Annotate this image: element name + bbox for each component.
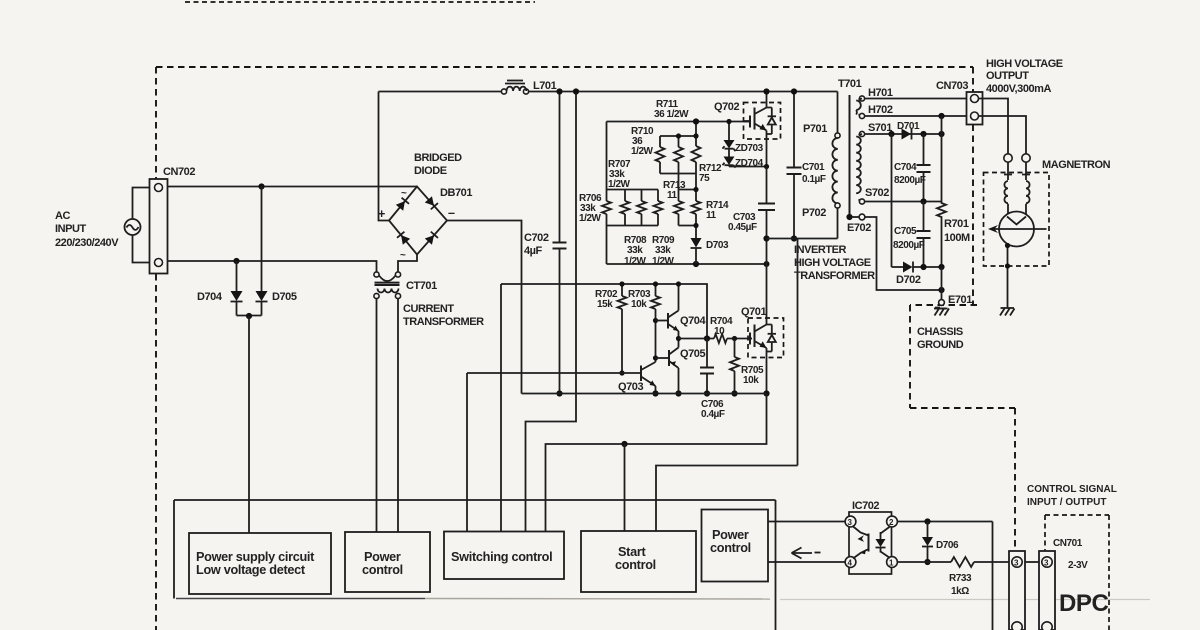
DB701 diode on bottom-left edge bbox=[397, 232, 410, 245]
svg-text:R733: R733 bbox=[949, 573, 972, 584]
diode D706 bbox=[922, 522, 933, 563]
arrow to power control bbox=[792, 548, 821, 559]
capacitor C705 bbox=[917, 202, 931, 268]
AC source symbol bbox=[125, 219, 141, 235]
wire: Q703 base line bbox=[467, 372, 641, 374]
svg-text:D704: D704 bbox=[197, 291, 223, 303]
wire: long riser from P702 node down to start-control line bbox=[797, 239, 799, 466]
wire: top bus right of L701 bbox=[528, 91, 837, 93]
wire: H702 to CN703 pin2 bbox=[865, 115, 971, 117]
junction: driver midpoint bbox=[676, 336, 681, 341]
magnetron tube bbox=[999, 212, 1034, 247]
svg-text:Q704: Q704 bbox=[680, 315, 706, 327]
wire: gate line from network to Q702 bbox=[744, 121, 752, 123]
svg-text:TRANSFORMER: TRANSFORMER bbox=[403, 316, 484, 328]
capacitor C704 bbox=[917, 134, 931, 202]
IC702 pin 4 bbox=[845, 557, 856, 568]
box: Power supply circuit / Low voltage detect bbox=[189, 533, 331, 594]
connector CN703 bbox=[967, 92, 983, 125]
box: Power control (left) bbox=[345, 532, 430, 592]
main dashed border: left edge (above CN702) bbox=[155, 67, 157, 179]
resistor leg 2 of bank (R707) bbox=[621, 190, 630, 226]
R710 bank: bottom rail bbox=[660, 173, 696, 175]
dashed net: vertical at x=1015 down to CN701 bbox=[1014, 408, 1016, 552]
IC702 light arrow bbox=[857, 535, 865, 543]
resistor R712 bbox=[692, 146, 701, 162]
wire: AC source top to CN702 pin1 bbox=[133, 188, 150, 220]
resistor R702 bbox=[618, 284, 627, 373]
svg-text:control: control bbox=[615, 558, 656, 572]
transformer heater winding H701/H702 bbox=[856, 96, 864, 119]
R710 middle leg resistor bbox=[674, 136, 683, 174]
CN701 bar2 pin 3 bbox=[1042, 557, 1052, 568]
transformer secondary winding bbox=[856, 131, 864, 204]
transformer E702 core tap bbox=[846, 214, 852, 220]
connector CN701 bar 2 bbox=[1039, 551, 1055, 630]
svg-text:CONTROL SIGNAL: CONTROL SIGNAL bbox=[1027, 484, 1117, 495]
transistor Q702 (IGBT) dashed outline bbox=[744, 103, 781, 140]
resistor R714 bbox=[692, 201, 701, 214]
transistor Q703 bbox=[641, 362, 656, 394]
svg-text:~: ~ bbox=[401, 188, 407, 199]
control board bottom edge (faded scan) bbox=[176, 598, 425, 600]
CN701 bar1 bottom pin bbox=[1012, 622, 1022, 630]
wire: negative bus bbox=[522, 393, 767, 395]
svg-text:CT701: CT701 bbox=[406, 280, 437, 292]
svg-text:DPC: DPC bbox=[1059, 590, 1108, 617]
box: Switching control bbox=[444, 532, 564, 580]
lower resistor bank bottom rail bbox=[607, 225, 659, 227]
main dashed border: left edge (below CN702) bbox=[155, 274, 157, 630]
svg-text:S702: S702 bbox=[865, 187, 889, 199]
svg-text:CHASSIS: CHASSIS bbox=[917, 326, 963, 338]
wire: D702 anode branch (S701 to D702) bbox=[891, 134, 893, 267]
svg-text:1/2W: 1/2W bbox=[631, 146, 654, 157]
box: Power control (right) bbox=[702, 510, 769, 582]
resistor R701 bbox=[937, 116, 946, 267]
R713/R714 bank bottom rail bbox=[679, 225, 697, 227]
junction: C702 bottom on negative bus bbox=[556, 390, 562, 396]
CN702 pin hole 2 bbox=[155, 259, 163, 267]
magnetron filament leads bbox=[1008, 163, 1026, 181]
svg-text:L701: L701 bbox=[533, 80, 557, 92]
junction: D706 bottom bbox=[924, 559, 930, 565]
junction: midpoint to P702 wire bbox=[763, 235, 769, 241]
svg-text:D701: D701 bbox=[897, 121, 920, 132]
svg-text:1/2W: 1/2W bbox=[608, 179, 631, 190]
capacitor C701 bbox=[787, 92, 802, 239]
svg-text:15k: 15k bbox=[597, 299, 613, 310]
transistor Q705 bbox=[656, 339, 679, 394]
wire core tap to E702 bbox=[852, 216, 859, 218]
junction: R701 top on S701 line bbox=[938, 131, 944, 137]
wire: CN703 pin2 to magnetron filament 2 bbox=[979, 116, 1027, 154]
wire: power control to IC702 pin3 bbox=[768, 521, 845, 523]
svg-text:220/230/240V: 220/230/240V bbox=[55, 237, 119, 249]
wire: base chain x=655.5 down to Q703 collector bbox=[655, 321, 657, 363]
Q702 IGBT symbol bbox=[744, 92, 777, 167]
svg-text:INVERTER: INVERTER bbox=[794, 244, 847, 256]
diode D705 bbox=[256, 187, 268, 316]
svg-text:MAGNETRON: MAGNETRON bbox=[1042, 159, 1111, 171]
junction: C704 top bbox=[920, 131, 926, 137]
svg-text:~: ~ bbox=[400, 250, 406, 261]
IC702 phototransistor bbox=[853, 526, 869, 559]
resistor R705 bbox=[730, 339, 739, 394]
wire: S702 line bbox=[865, 201, 942, 203]
svg-text:H701: H701 bbox=[868, 87, 893, 99]
junction: riser top on bus bbox=[573, 88, 579, 94]
chassis ground symbol at E701 bbox=[934, 308, 949, 316]
svg-text:ZD703: ZD703 bbox=[735, 143, 764, 154]
svg-text:11: 11 bbox=[706, 210, 717, 221]
svg-text:Power: Power bbox=[712, 528, 749, 542]
wire: midpoint bottom link C703-C701-primary bbox=[767, 238, 838, 240]
junction: HV return tap on H702 wire bbox=[938, 113, 944, 119]
DPC dashed box: top edge bbox=[1045, 514, 1109, 516]
control board outline: top edge bbox=[174, 499, 776, 501]
svg-text:100M: 100M bbox=[944, 232, 970, 244]
junction: R701 bottom bbox=[938, 264, 944, 270]
magnetron filament coil 2 bbox=[1026, 181, 1030, 203]
junction: D702 branch on S701 line bbox=[888, 131, 894, 137]
svg-text:8200µF: 8200µF bbox=[894, 175, 926, 186]
wire: IC702 pin2 right to riser bbox=[898, 521, 993, 523]
terminal E702 bbox=[859, 214, 865, 220]
svg-text:C702: C702 bbox=[524, 232, 549, 244]
DB701 diode on bottom-right edge bbox=[425, 232, 438, 245]
transformer T701 primary winding bbox=[832, 92, 840, 239]
IC702 pin 1 bbox=[887, 557, 898, 568]
wire: line A tap down to start control bbox=[624, 444, 626, 531]
wire: R701 bottom to E701 bbox=[941, 267, 943, 300]
magnetron cathode stem to ground bbox=[1007, 243, 1009, 308]
junction: C701 bottom bbox=[791, 235, 797, 241]
svg-text:33k: 33k bbox=[627, 245, 643, 256]
DPC dashed box: right edge bbox=[1108, 515, 1110, 630]
network bottom edge bbox=[607, 263, 767, 265]
svg-text:BRIDGED: BRIDGED bbox=[414, 152, 462, 164]
svg-text:HIGH VOLTAGE: HIGH VOLTAGE bbox=[794, 257, 871, 269]
magnetron anode chevron bbox=[1007, 217, 1026, 225]
svg-text:CURRENT: CURRENT bbox=[403, 303, 454, 315]
junction: E701 node bbox=[938, 287, 944, 293]
resistor R704 bbox=[714, 334, 727, 343]
terminal E701 bbox=[939, 300, 945, 306]
wire between connector bars bbox=[1025, 561, 1039, 563]
svg-text:H702: H702 bbox=[868, 104, 893, 116]
wire: AC source bottom to CN702 pin2 bbox=[133, 235, 150, 263]
resistor R703 bbox=[651, 284, 660, 321]
svg-text:E701: E701 bbox=[948, 294, 972, 306]
wire: line B from P702 riser to start control bbox=[656, 466, 798, 532]
wire: R733 to CN701 bbox=[974, 561, 1009, 563]
svg-text:11: 11 bbox=[667, 190, 678, 201]
svg-text:DB701: DB701 bbox=[440, 187, 472, 199]
junction R702 top bbox=[619, 281, 624, 286]
R710 left leg resistor bbox=[656, 136, 665, 174]
Q701 IGBT symbol bbox=[750, 318, 777, 358]
svg-text:0.4µF: 0.4µF bbox=[701, 409, 725, 420]
main dashed border: right edge below CN703 bbox=[972, 125, 974, 305]
svg-text:Q702: Q702 bbox=[714, 101, 739, 113]
control board outline: left edge bbox=[173, 500, 175, 599]
main dashed border: right edge bbox=[972, 67, 974, 92]
CN702 pin hole 1 bbox=[155, 184, 163, 192]
DPC dashed box: left edge bbox=[1044, 515, 1046, 550]
svg-text:–: – bbox=[448, 206, 455, 220]
svg-text:C701: C701 bbox=[802, 162, 825, 173]
IC702 pin 3 bbox=[845, 516, 856, 527]
network right chain: top segment with junction bbox=[695, 122, 697, 147]
capacitor C706 bbox=[700, 339, 714, 394]
control board outline: right edge riser bbox=[775, 500, 777, 630]
junction: D704 tap on AC bottom line bbox=[233, 258, 239, 264]
wire: S701 line bbox=[865, 133, 942, 135]
svg-text:INPUT / OUTPUT: INPUT / OUTPUT bbox=[1027, 497, 1106, 508]
svg-text:Low voltage detect: Low voltage detect bbox=[196, 563, 306, 577]
wire: bus right end down to line A bbox=[546, 394, 767, 532]
svg-text:1/2W: 1/2W bbox=[652, 256, 675, 267]
resistor R713 bbox=[674, 190, 683, 226]
svg-text:36 1/2W: 36 1/2W bbox=[654, 109, 689, 120]
wire: D704/D705 junction bar bbox=[237, 315, 262, 317]
wire: AC top line CN702 to bridge top vertex bbox=[168, 186, 418, 188]
zener diode ZD703 bbox=[723, 122, 736, 152]
junction: bus right end bbox=[763, 390, 769, 396]
svg-text:8200µF: 8200µF bbox=[893, 240, 925, 251]
wire: down to power supply circuit box bbox=[248, 316, 250, 533]
svg-text:Power supply circuit: Power supply circuit bbox=[196, 550, 315, 564]
ground symbol (magnetron) bbox=[1000, 308, 1015, 316]
svg-text:75: 75 bbox=[699, 173, 710, 184]
svg-text:DIODE: DIODE bbox=[414, 165, 447, 177]
svg-text:IC702: IC702 bbox=[852, 500, 879, 512]
svg-text:R701: R701 bbox=[944, 218, 969, 230]
IC702 LED bbox=[876, 527, 891, 559]
junction on emitter column bbox=[764, 164, 769, 169]
diode D702 bbox=[892, 262, 942, 273]
wire: riser x=992.5 down bbox=[992, 522, 994, 630]
svg-text:2-3V: 2-3V bbox=[1068, 560, 1088, 571]
svg-text:10k: 10k bbox=[743, 375, 759, 386]
svg-text:33k: 33k bbox=[655, 245, 671, 256]
svg-text:1kΩ: 1kΩ bbox=[951, 586, 969, 597]
svg-text:Switching control: Switching control bbox=[451, 550, 552, 564]
wire: CN703 pin1 to magnetron filament 1 bbox=[979, 99, 1009, 154]
svg-text:D703: D703 bbox=[706, 240, 729, 251]
svg-text:Q701: Q701 bbox=[741, 306, 766, 318]
resistor leg 4 of bank (R709) bbox=[654, 190, 663, 226]
DB701 diode on top-right edge bbox=[425, 196, 438, 209]
wire: H701 to CN703 pin1 bbox=[865, 98, 971, 100]
junction C706 bottom bbox=[704, 390, 710, 396]
magnetron dashed outline bbox=[984, 173, 1050, 267]
svg-text:E702: E702 bbox=[847, 222, 871, 234]
svg-text:4µF: 4µF bbox=[524, 245, 543, 257]
svg-text:Q703: Q703 bbox=[618, 381, 643, 393]
svg-text:10k: 10k bbox=[631, 299, 647, 310]
transistor Q704 bbox=[656, 284, 679, 339]
junction: bottom edge to half-bridge midpoint bbox=[764, 261, 770, 267]
wire: IC702 pin1 to R733 bbox=[898, 561, 952, 563]
lower resistor bank top rail bbox=[607, 189, 659, 191]
svg-text:0.45µF: 0.45µF bbox=[728, 222, 757, 233]
wire: Q701 emitter to negative bus bbox=[766, 358, 768, 394]
svg-text:OUTPUT: OUTPUT bbox=[986, 70, 1029, 82]
wire: switching feed riser x=501 bbox=[500, 284, 502, 532]
junction: Q702 collector on top bus bbox=[763, 88, 769, 94]
svg-text:CN701: CN701 bbox=[1053, 538, 1083, 549]
connector CN702 bbox=[150, 179, 168, 274]
box: Start control bbox=[581, 531, 696, 592]
junction on stem bbox=[1005, 243, 1010, 248]
wire: drive supply line y=284 bbox=[501, 284, 707, 339]
magnetron terminal 1 bbox=[1004, 154, 1012, 162]
CN703 pin 2 bbox=[971, 112, 979, 120]
junction: Q705 base tap bbox=[653, 355, 658, 360]
network left edge with resistor R706 (lowest-left leg) bbox=[606, 122, 608, 202]
magnetron filament coil 1 bbox=[1004, 181, 1008, 203]
svg-text:1/2W: 1/2W bbox=[579, 213, 602, 224]
capacitor C702 bbox=[553, 92, 567, 394]
svg-text:S701: S701 bbox=[868, 122, 892, 134]
connector CN701 bar 1 bbox=[1009, 551, 1025, 630]
svg-text:HIGH VOLTAGE: HIGH VOLTAGE bbox=[986, 58, 1063, 70]
optocoupler IC702 box bbox=[849, 512, 892, 574]
wire: bridge + vertical riser (crosses AC line) bbox=[379, 92, 390, 221]
svg-text:D705: D705 bbox=[272, 291, 297, 303]
svg-text:4000V,300mA: 4000V,300mA bbox=[986, 83, 1051, 95]
magnetron output arrow bbox=[988, 225, 1047, 233]
junction: Q704 collector on supply line bbox=[676, 281, 681, 286]
junction: C702 top on bus bbox=[556, 88, 562, 94]
svg-text:control: control bbox=[710, 541, 751, 555]
wire: CT701 secondary right to power control bbox=[397, 299, 399, 533]
svg-text:Power: Power bbox=[364, 550, 401, 564]
svg-text:TRANSFORMER: TRANSFORMER bbox=[794, 270, 875, 282]
junction: C701 top on bus bbox=[791, 88, 797, 94]
wire: top bus left of L701 bbox=[379, 91, 502, 93]
diode D703 bbox=[691, 238, 702, 264]
junction R705 bottom bbox=[731, 390, 737, 396]
svg-text:+: + bbox=[378, 207, 385, 221]
svg-text:P702: P702 bbox=[802, 207, 826, 219]
resistor R706 zigzag bbox=[602, 201, 611, 214]
junction dot on bar bbox=[246, 313, 252, 319]
resistor network outer box: top edge (R711 in series) bbox=[607, 121, 752, 123]
svg-text:AC: AC bbox=[55, 210, 70, 222]
svg-text:CN703: CN703 bbox=[936, 80, 968, 92]
DB701 diode on top-left edge bbox=[396, 198, 409, 211]
wire: bridge bottom vertex to CT701 bbox=[398, 255, 417, 273]
CN703 pin 1 bbox=[971, 95, 979, 103]
filament connection ticks bbox=[1004, 174, 1030, 176]
wire: ZD chain to emitter column bbox=[729, 166, 767, 168]
svg-text:Q705: Q705 bbox=[680, 348, 705, 360]
junction: start-control tap on line A bbox=[621, 441, 627, 447]
junction: D705 tap on AC top line bbox=[258, 183, 264, 189]
wire: bridge - output to negative bus riser bbox=[447, 221, 522, 394]
svg-text:CN702: CN702 bbox=[163, 166, 195, 178]
transistor Q701 (IGBT) dashed outline bbox=[748, 318, 784, 358]
wire: R710 bank to R713 bank bbox=[678, 174, 680, 190]
svg-text:D706: D706 bbox=[936, 540, 959, 551]
CN701 bar1 pin 3 bbox=[1012, 557, 1022, 568]
dashed net: horizontal at y=408 bbox=[910, 407, 1015, 409]
junction: ZD chain on gate line bbox=[726, 119, 731, 124]
junction: C706/supply tap on gate line bbox=[704, 335, 710, 341]
dashed net: vertical at x=910 bbox=[909, 305, 911, 408]
capacitor C703 bbox=[758, 167, 775, 319]
junction: D703 chain at bottom edge bbox=[693, 261, 699, 267]
junction: Q704 base tap bbox=[653, 318, 658, 323]
wire: second riser from top bus down to switching feed bbox=[526, 92, 577, 532]
svg-text:INPUT: INPUT bbox=[55, 223, 86, 235]
svg-text:P701: P701 bbox=[803, 123, 827, 135]
magnetron terminal 2 bbox=[1022, 154, 1030, 162]
junction R703 top bbox=[653, 281, 658, 286]
bridged diode DB701 diamond bbox=[389, 187, 447, 255]
wire: E702 drop line bbox=[865, 217, 942, 290]
IC702 pin 2 bbox=[887, 516, 898, 527]
outer dashed border fragment (top, cut off) bbox=[185, 1, 535, 3]
current transformer CT701 bbox=[374, 272, 401, 299]
R710 parallel bank: top rail bbox=[660, 135, 696, 137]
junction on R710 top rail bbox=[676, 133, 681, 138]
R713/R714 bank top rail bbox=[679, 189, 697, 191]
inductor L701 bbox=[501, 81, 528, 95]
dashed net around E701: horizontal bbox=[910, 304, 977, 306]
svg-text:0.1µF: 0.1µF bbox=[802, 174, 826, 185]
junction: D706 top bbox=[924, 518, 930, 524]
main dashed border: top edge bbox=[156, 66, 973, 68]
diode D701 bbox=[902, 129, 912, 140]
diode D704 bbox=[231, 261, 243, 316]
resistor R733 bbox=[951, 557, 974, 567]
wire: base line riser to switching control bbox=[466, 373, 468, 532]
svg-text:T701: T701 bbox=[838, 78, 862, 90]
svg-text:Start: Start bbox=[618, 545, 646, 559]
wire: CT701 secondary left to power control bbox=[376, 299, 378, 533]
junction: C705 bottom on D702 line bbox=[920, 264, 926, 270]
junction at dashed box edge bbox=[1005, 263, 1010, 268]
svg-text:C704: C704 bbox=[894, 162, 917, 173]
svg-text:10: 10 bbox=[714, 326, 725, 337]
wire: AC bottom line CN702 to CT701 bbox=[168, 261, 377, 272]
transformer core line bbox=[849, 95, 851, 217]
wire: gate drive line to Q701 bbox=[679, 338, 715, 340]
junction: R705 tap on gate line bbox=[732, 336, 737, 341]
svg-text:D702: D702 bbox=[896, 274, 921, 286]
junction: Q703 emitter on negative bus bbox=[652, 390, 658, 396]
wire: power control to IC702 pin4 bbox=[768, 561, 845, 563]
zener diode ZD704 bbox=[723, 149, 736, 168]
svg-text:1/2W: 1/2W bbox=[624, 256, 647, 267]
svg-text:C705: C705 bbox=[894, 226, 917, 237]
resistor leg 3 of bank (R708) bbox=[637, 190, 646, 226]
junction: C705 top on S702 line bbox=[920, 198, 926, 204]
CN701 bar2 bottom pin bbox=[1042, 622, 1052, 630]
magnetron leads into tube bbox=[1008, 204, 1026, 214]
junction R702 bottom on base line bbox=[619, 370, 624, 375]
junction: Q705 emitter on negative bus bbox=[675, 390, 681, 396]
svg-text:GROUND: GROUND bbox=[917, 339, 964, 351]
svg-text:control: control bbox=[362, 563, 403, 577]
